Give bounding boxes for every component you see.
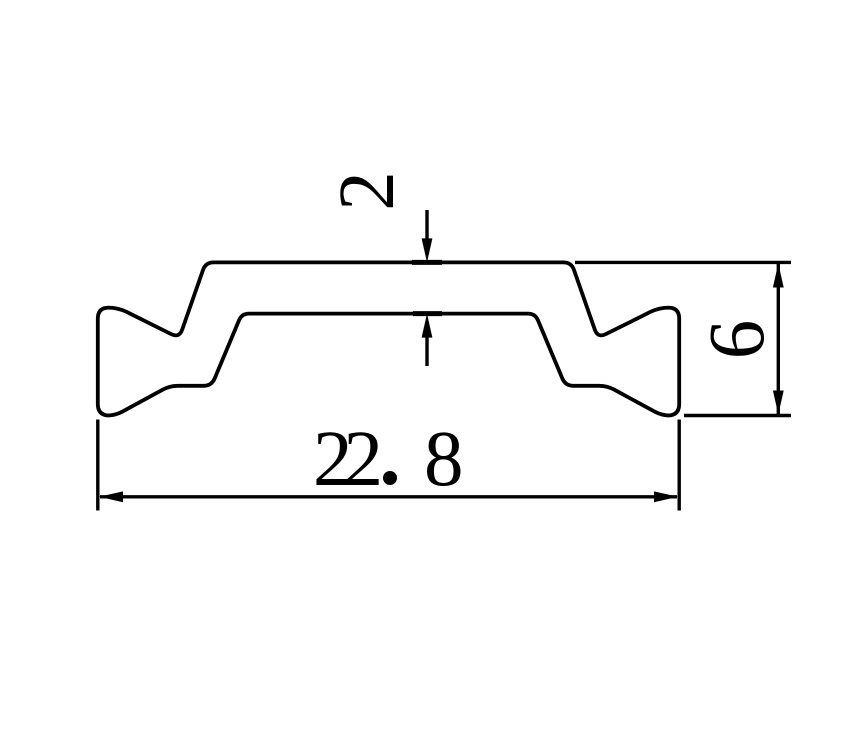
profile outline: [98, 262, 679, 415]
dim 2: lower arrow shaft: [425, 337, 428, 366]
dim 22.8: left extension line: [96, 420, 99, 511]
dim 2: arrowhead pointing up at inner line: [422, 314, 433, 338]
dim 6: dimension line: [777, 264, 780, 414]
dim 6: bottom extension line: [684, 414, 791, 417]
dim 2: overlap seg top: [412, 260, 442, 265]
svg-text:6: 6: [694, 320, 781, 360]
dim 2: arrowhead pointing down at top plate: [422, 238, 433, 262]
decimal point of 22.8: [383, 471, 397, 485]
dim 22.8: right extension line: [678, 420, 681, 511]
dim 22.8: right arrowhead: [654, 491, 678, 502]
dim 6: top extension line: [575, 261, 791, 264]
dim 2: upper arrow shaft: [425, 210, 428, 240]
dim 22.8: dimension line: [100, 495, 677, 498]
dim 6: top arrowhead: [773, 264, 784, 288]
svg-text:2: 2: [324, 171, 411, 211]
dim 6: bottom arrowhead: [773, 391, 784, 415]
dim 2: overlap seg bottom: [413, 311, 442, 316]
dim 22.8: left arrowhead: [99, 491, 123, 502]
